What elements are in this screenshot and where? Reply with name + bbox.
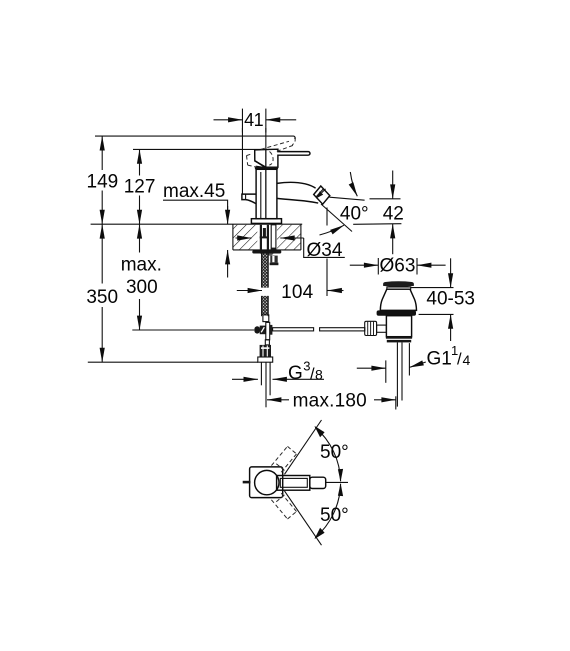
dimension 350 vertical (86, 224, 118, 362)
top view: pop-up rod stub (243, 481, 251, 484)
deck slab with hatching left part (233, 224, 257, 250)
G3/8 threaded pipe (261, 362, 270, 407)
shank horizontal collar (260, 236, 269, 238)
dimension 40-53 (411, 258, 475, 341)
top view: lower 50 deg ray (285, 491, 322, 545)
svg-text:350: 350 (86, 287, 118, 308)
spout (277, 182, 316, 188)
lower arc arrowheads (338, 483, 343, 496)
dimension max.45 (deck thickness) (163, 181, 228, 277)
lower 50 deg arc (315, 484, 340, 538)
pop-up rod pipe segment 1 (273, 328, 314, 331)
dashed raised lever (261, 138, 295, 165)
drain waste: plug cap (383, 281, 414, 289)
braided supply hose lower segment (262, 296, 269, 316)
extension line from spout outlet for 104 (326, 208, 328, 297)
aerator tilted square (314, 186, 330, 204)
pop-up rod knob left of body (242, 194, 256, 204)
dimension 40 degrees spout angle (320, 172, 369, 235)
svg-text:max.: max. (121, 254, 162, 275)
svg-text:42: 42 (383, 203, 404, 224)
svg-text:50°: 50° (320, 442, 349, 463)
svg-text:8: 8 (315, 366, 323, 382)
svg-text:G: G (288, 363, 303, 384)
angle valve tee fitting (254, 322, 272, 339)
deck bottom line (233, 249, 301, 251)
faucet handle block (255, 149, 310, 167)
dimension G1 1/4 (357, 343, 471, 383)
svg-text:104: 104 (281, 282, 314, 303)
G3/8 knurled nut (260, 345, 271, 357)
top view: spout outer (277, 476, 310, 491)
faucet body column (256, 169, 277, 218)
supply rod reference line (max300 bottom) (132, 329, 254, 331)
hose end fitting (263, 315, 269, 322)
shank lock nut below deck (252, 250, 281, 255)
svg-text:40°: 40° (340, 203, 369, 224)
svg-text:300: 300 (126, 277, 158, 298)
dimension Ø34 leader (236, 238, 345, 261)
drain waste: body below flange (386, 316, 411, 337)
mounting stud through deck (271, 225, 276, 250)
drain body coupling rings (386, 337, 412, 343)
faucet centerline (265, 128, 267, 219)
top view: dashed spout rotated down (271, 493, 296, 519)
top view: centerline right (326, 481, 348, 483)
threaded shank right wall (267, 225, 269, 250)
shank inner cartridge (263, 228, 266, 237)
svg-text:40-53: 40-53 (426, 289, 475, 310)
pop-up rod pipe segment 2 (320, 328, 365, 331)
drain rod knob knurled (365, 321, 377, 335)
drain waste: flange ring (377, 310, 416, 315)
upper 50 deg arc (315, 427, 340, 481)
svg-text:41: 41 (244, 110, 263, 130)
deck top reference line (91, 223, 303, 225)
top view: body square (250, 467, 283, 498)
dimension G3/8 (232, 359, 324, 384)
dashed handle alternate position left (247, 154, 257, 167)
drain tailpipe (397, 342, 402, 406)
svg-text:Ø63: Ø63 (380, 255, 416, 276)
stud nut knurled (270, 256, 279, 266)
svg-text:/: / (457, 350, 462, 368)
svg-text:127: 127 (124, 176, 156, 197)
top view: cartridge circle (255, 470, 279, 494)
base flange (251, 219, 281, 224)
knob neck to drain body (377, 325, 387, 332)
dimension 104 horizontal (237, 282, 344, 303)
svg-text:149: 149 (87, 171, 119, 192)
drain waste: funnel body (380, 289, 416, 310)
flow direction arrow inside aerator (316, 191, 323, 198)
svg-text:50°: 50° (320, 505, 349, 526)
svg-text:Ø34: Ø34 (307, 240, 343, 261)
deck slab with hatching right part (277, 224, 301, 250)
dimension max.180 (267, 391, 396, 412)
top view: upper 50 deg ray (285, 420, 322, 474)
handle underside dark band (255, 167, 278, 169)
braided supply hose upper segment (262, 254, 269, 288)
centerline over handle (265, 149, 267, 169)
svg-text:G1: G1 (427, 348, 452, 369)
dimension max.300 vertical (121, 224, 162, 330)
extension line 41-left down to pop-up knob (241, 128, 243, 194)
threaded shank left wall (260, 225, 262, 250)
dimension Ø63 (350, 255, 446, 276)
top view: spout inner (280, 478, 307, 487)
top view: dashed spout rotated up (271, 446, 296, 472)
dimension 42 vertical (353, 171, 404, 255)
dimension 127 vertical (124, 149, 156, 224)
handle bottom-left diagonal (255, 161, 266, 168)
centerline through column (265, 169, 267, 218)
upper arc arrowheads (338, 469, 343, 482)
dimension 41 horizontal (214, 109, 297, 133)
svg-text:max.180: max.180 (293, 391, 367, 412)
top view: aerator end (310, 477, 326, 488)
hose end reference line (350 bottom) (88, 361, 258, 363)
dimension 149 vertical (87, 136, 119, 224)
reference line handle top (127) (133, 148, 263, 150)
svg-text:max.45: max.45 (163, 181, 225, 202)
svg-text:4: 4 (463, 352, 471, 368)
G3/8 flange nut (258, 357, 273, 362)
inner body line (260, 172, 262, 219)
pipe below tee (265, 340, 269, 345)
reference line lever top (149) (95, 136, 295, 139)
